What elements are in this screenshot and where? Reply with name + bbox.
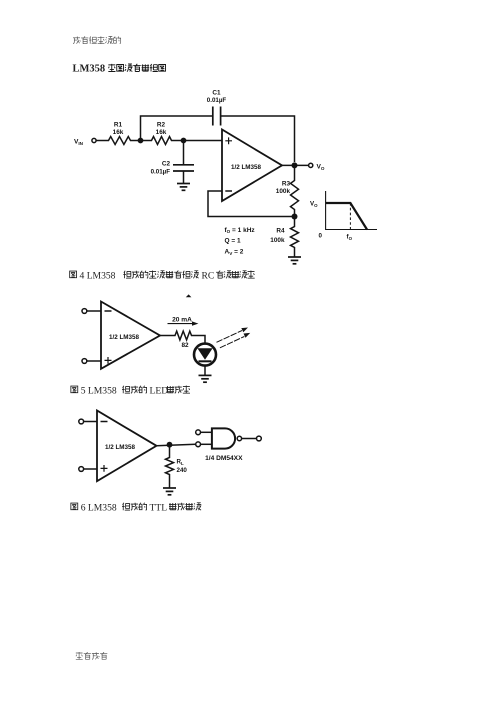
svg-text:240: 240	[177, 467, 188, 474]
resistor R4	[291, 225, 299, 249]
wire inverting input feedback	[208, 191, 295, 217]
wire lower input to gate	[201, 443, 212, 445]
wire C2 to ground	[183, 171, 185, 183]
wire R3 to node C	[294, 211, 296, 225]
wire LED to ground	[204, 366, 206, 375]
wire R1 to node A	[132, 140, 150, 142]
label 20 mA	[172, 316, 192, 323]
gate output terminal	[257, 436, 262, 441]
svg-text:LM358: LM358	[73, 64, 106, 75]
label fo Q Av	[225, 227, 256, 256]
svg-text:16k: 16k	[113, 129, 124, 136]
svg-text:0.01µF: 0.01µF	[207, 97, 227, 104]
label 82	[181, 342, 189, 349]
caption 图5 LM358 组成的LED驱动器	[71, 385, 190, 396]
wire op-amp output to resistor	[160, 335, 174, 337]
current arrow	[168, 321, 199, 325]
svg-text:R3: R3	[282, 181, 291, 188]
capacitor C1	[213, 107, 221, 126]
svg-text:1/2 LM358: 1/2 LM358	[105, 444, 136, 451]
graph axes	[326, 191, 377, 230]
graph label Vo	[310, 201, 353, 241]
terminal plus input (led)	[82, 359, 87, 364]
terminal plus input (ttl)	[79, 467, 84, 472]
node B junction	[181, 138, 187, 144]
op-amp U3 1/2 LM358	[97, 411, 157, 482]
node A junction	[138, 138, 144, 144]
caption 图6 LM358 组成的TTL驱动电路	[71, 502, 201, 513]
svg-text:16k: 16k	[156, 129, 167, 136]
svg-text:LED: LED	[150, 385, 169, 396]
output node junction	[292, 162, 298, 168]
node Vin label	[74, 139, 84, 147]
resistor R3	[291, 179, 299, 211]
capacitor C2	[173, 165, 194, 171]
gate input terminal lower	[196, 442, 201, 447]
wire C1 to output node	[221, 116, 295, 162]
graph curve	[326, 203, 367, 230]
wire RL to ground	[169, 476, 171, 488]
footer text 文案大全	[76, 652, 107, 660]
label Vo	[317, 163, 325, 171]
svg-text:R2: R2	[157, 122, 166, 129]
wire minus input ttl	[84, 421, 97, 423]
wire plus input	[87, 360, 101, 362]
light emission arrows	[217, 328, 251, 348]
resistor RL	[166, 456, 174, 476]
terminal minus input (led)	[82, 309, 87, 314]
title LM358 典型应用电路图	[73, 64, 166, 75]
svg-text:100k: 100k	[270, 237, 285, 244]
wire output to R3	[294, 165, 296, 179]
label R1 16k	[113, 122, 124, 136]
label C2 0.01uF	[151, 161, 171, 176]
wire op-amp output to gate input	[157, 444, 196, 446]
node C junction	[292, 214, 298, 220]
gate input terminal upper	[196, 430, 201, 435]
wire resistor to LED	[193, 336, 205, 344]
node D junction	[167, 442, 173, 448]
svg-text:1/2 LM358: 1/2 LM358	[109, 334, 140, 341]
svg-text:RC: RC	[202, 270, 215, 281]
graph dashed line at fo	[349, 203, 351, 230]
wire R2 to op-amp + input	[173, 140, 222, 142]
wire op-amp output	[282, 164, 309, 166]
svg-text:R4: R4	[276, 228, 285, 235]
svg-text:4 LM358: 4 LM358	[80, 270, 116, 281]
svg-text:1/4 DM54XX: 1/4 DM54XX	[205, 455, 243, 462]
stray arrow mark	[186, 294, 192, 297]
svg-text:C2: C2	[162, 161, 171, 168]
resistor R1	[107, 137, 132, 145]
svg-text:R1: R1	[114, 122, 123, 129]
svg-text:TTL: TTL	[150, 502, 168, 513]
svg-text:100k: 100k	[276, 188, 291, 195]
svg-text:Q = 1: Q = 1	[225, 238, 241, 245]
wire upper input to gate	[201, 431, 212, 433]
label R4 100k	[270, 228, 285, 245]
wire node D to RL	[169, 445, 171, 456]
op-amp U2 1/2 LM358	[101, 302, 160, 369]
svg-text:C1: C1	[212, 90, 221, 97]
label R3 100k	[276, 181, 291, 196]
terminal minus input (ttl)	[79, 419, 84, 424]
resistor R2	[150, 137, 173, 145]
header text 实用标准文档	[73, 36, 121, 44]
wire minus input	[87, 310, 101, 312]
NAND gate 1/4 DM54XX	[212, 428, 242, 448]
label C1 0.01uF	[207, 90, 227, 105]
ground (LED)	[199, 375, 212, 382]
LED D1	[194, 344, 216, 366]
svg-text:82: 82	[181, 342, 189, 349]
label RL 240	[177, 459, 188, 474]
svg-text:20 mA: 20 mA	[172, 316, 192, 323]
wire Vin to R1	[96, 140, 107, 142]
wire node B down to C2	[183, 141, 185, 165]
wire gate output	[242, 438, 257, 440]
caption 图4 LM358 组成的直流耦合低通RC有源滤波器	[70, 270, 255, 281]
wire R4 to ground	[294, 249, 296, 257]
output terminal Vo	[309, 163, 313, 167]
wire node A up to C1	[141, 116, 213, 141]
input terminal	[92, 138, 96, 142]
label 1/4 DM54XX	[205, 455, 243, 462]
ground (RL)	[163, 488, 176, 495]
resistor 82	[174, 331, 194, 340]
svg-text:AV = 2: AV = 2	[225, 248, 244, 255]
wire plus input ttl	[84, 468, 97, 470]
ground (R4)	[288, 257, 301, 264]
svg-text:5 LM358: 5 LM358	[81, 385, 117, 396]
svg-text:1/2 LM358: 1/2 LM358	[231, 164, 262, 171]
ground (C2)	[177, 184, 190, 191]
svg-text:0: 0	[319, 233, 323, 240]
svg-text:0.01µF: 0.01µF	[151, 169, 171, 176]
label R2 16k	[156, 122, 167, 136]
svg-text:6 LM358: 6 LM358	[81, 502, 117, 513]
op-amp U1 1/2 LM358	[222, 130, 282, 202]
